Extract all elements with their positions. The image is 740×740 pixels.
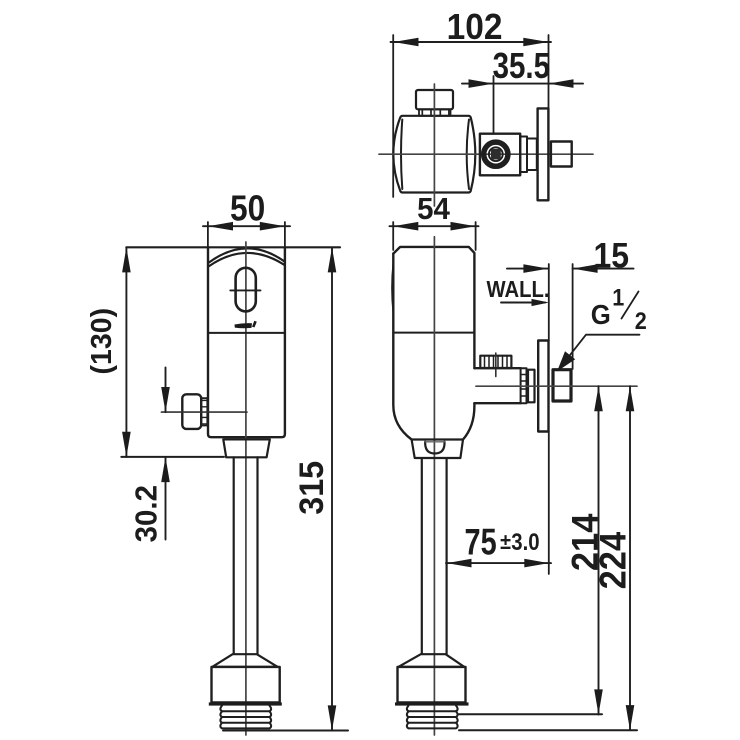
knob stem centerline	[495, 353, 497, 377]
WALL label	[487, 276, 550, 303]
dim line 315	[331, 247, 333, 730]
arrow 54 left	[393, 222, 418, 231]
arrow 214 top	[594, 386, 603, 411]
front body top arc 1	[209, 248, 284, 262]
arrow 15 pointing left	[573, 264, 598, 273]
side pipe left wall	[421, 459, 423, 654]
ribbed knob on arm	[480, 356, 511, 368]
svg-text:315: 315	[293, 461, 331, 515]
svg-text:(130): (130)	[86, 308, 118, 375]
side wall plate	[538, 341, 548, 432]
front pipe right wall	[256, 457, 258, 654]
dim 315 rotated text	[293, 461, 331, 515]
arrow 75 left	[447, 559, 472, 568]
arrow 15 pointing right	[523, 264, 548, 273]
svg-text:3.0: 3.0	[511, 528, 539, 555]
front body outline	[208, 247, 285, 437]
dim line 102	[391, 41, 552, 43]
top view vertical centerline	[433, 84, 435, 206]
arrow 315 top	[328, 247, 337, 272]
dim 214 rotated text	[563, 514, 606, 572]
bottom reference line front	[223, 730, 348, 732]
reference line at neck bottom	[121, 456, 224, 458]
top view barrel inner arc left	[401, 120, 402, 190]
svg-text:2: 2	[635, 307, 647, 334]
svg-text:75: 75	[465, 522, 497, 563]
dim text 54	[417, 193, 450, 227]
arrow 214 bottom	[594, 689, 603, 714]
arrow 224 top	[626, 386, 635, 411]
arrow 35.5 pointing left	[549, 79, 574, 88]
arrow 30.2 down	[161, 387, 170, 412]
arrow 75 right	[524, 559, 549, 568]
extension 75 right (wall face extended)	[548, 432, 550, 575]
extension 54 left	[392, 222, 394, 250]
svg-text:30.2: 30.2	[130, 485, 164, 542]
front threads	[220, 706, 271, 729]
svg-text:54: 54	[417, 193, 450, 227]
side vertical centerline	[433, 237, 435, 735]
top view step 1	[520, 137, 527, 173]
arrow 50 left	[208, 222, 233, 231]
top reference line through body	[126, 246, 340, 248]
side knob cap	[182, 394, 201, 429]
dim (130) rotated text	[86, 308, 118, 375]
arm bottom edge	[474, 402, 520, 404]
arrow (130) bottom	[122, 432, 131, 457]
extension line 35.5 center	[493, 76, 495, 134]
side neck notch	[425, 442, 444, 454]
dim line 224	[629, 386, 631, 730]
dim text 15	[594, 236, 630, 276]
arm top edge	[474, 367, 520, 369]
top view valve fitting block	[480, 134, 520, 176]
top view valve circle outer ring	[484, 142, 508, 166]
svg-text:15: 15	[594, 236, 630, 276]
body separator line	[209, 332, 284, 334]
side body left lens arc	[392, 264, 393, 312]
dim line (130)	[125, 247, 127, 457]
arm centerline	[476, 385, 637, 387]
front spreader shoulder	[212, 654, 278, 667]
front pipe left wall	[233, 457, 235, 654]
extension 15 left (wall face upper)	[548, 264, 550, 341]
svg-text:1: 1	[612, 284, 624, 311]
dim line 30.2 upper segment	[165, 368, 167, 413]
front lock nut	[212, 667, 280, 703]
arrow 102 left	[393, 38, 418, 47]
arrow 102 right	[523, 38, 548, 47]
dim text 50	[230, 189, 265, 229]
G 1/2 label	[591, 299, 611, 330]
arrow 224 bottom	[626, 705, 635, 730]
dim 30.2 rotated text	[130, 485, 164, 542]
side body outline	[393, 247, 474, 368]
neck trapezoid	[223, 439, 269, 457]
svg-text:224: 224	[591, 532, 634, 590]
top view valve center square	[491, 149, 501, 160]
dim 15 right tail	[573, 268, 634, 270]
top view horizontal centerline	[379, 153, 593, 155]
extension 15 right	[572, 264, 574, 369]
hex nut behind wall	[553, 370, 571, 401]
extension line left of 102	[392, 35, 394, 197]
side body left edge	[393, 254, 411, 440]
arrow (130) top	[122, 247, 131, 272]
front vertical centerline	[245, 242, 247, 735]
front nut flange band	[209, 702, 282, 705]
G 1/2 leader arrowhead	[557, 351, 575, 371]
front body top arc 2	[209, 253, 284, 266]
side pipe right wall	[446, 459, 448, 654]
top view cap nut	[416, 90, 453, 109]
svg-text:±: ±	[500, 530, 511, 554]
side neck	[412, 440, 463, 459]
knob centerline	[161, 411, 247, 413]
arrow 50 right	[260, 222, 285, 231]
arrow 315 bottom	[328, 705, 337, 730]
svg-text:WALL.: WALL.	[487, 276, 550, 303]
side lock nut	[398, 667, 466, 703]
arrow 30.2 up	[161, 457, 170, 482]
WALL arrowhead	[532, 299, 550, 306]
dim line 30.2 lower segment	[165, 457, 167, 540]
top view barrel body	[393, 116, 475, 193]
reference line 214	[459, 713, 602, 715]
arrow 35.5 pointing right	[469, 79, 494, 88]
G 1/2 leader line	[559, 335, 640, 369]
extension line right of 102 (wall face)	[548, 35, 550, 109]
extension 54 right	[475, 222, 477, 250]
top view valve circle inner	[489, 147, 503, 161]
side nut flange band	[395, 702, 469, 705]
extension 50 left	[207, 222, 209, 247]
dim line 54	[390, 225, 479, 227]
dim line 214	[598, 386, 600, 714]
top view wall plate	[538, 108, 549, 200]
dim 15 left tail	[507, 268, 549, 270]
side knob flange	[201, 398, 207, 425]
reference line 224	[459, 729, 637, 731]
top view cap flange	[419, 109, 451, 116]
side spreader shoulder	[398, 654, 464, 667]
dim line 50	[203, 225, 290, 227]
extension 50 right	[284, 222, 286, 247]
arm threaded ring	[521, 368, 527, 403]
side separator line	[393, 332, 474, 334]
svg-text:G: G	[591, 299, 611, 330]
dim text 102	[447, 8, 503, 47]
dim line 75	[446, 562, 551, 564]
oval center tick	[230, 289, 260, 291]
side threads	[407, 706, 458, 729]
G 1/2 slash	[622, 292, 639, 319]
sensor window oval	[236, 268, 256, 312]
svg-text:35.5: 35.5	[493, 45, 550, 85]
dim line 35.5	[462, 83, 583, 85]
dim text 75 +-3.0	[465, 522, 497, 563]
WALL arrow line	[501, 302, 545, 304]
side body right lower edge	[463, 403, 474, 439]
top view rear pipe	[551, 142, 572, 167]
dim text 35.5	[493, 45, 550, 85]
arrow 54 right	[451, 222, 476, 231]
top view barrel inner arc right	[467, 120, 469, 190]
arm flange	[528, 370, 535, 403]
top view step 2	[527, 139, 537, 171]
logo mark	[235, 321, 257, 328]
dim 224 rotated text	[591, 532, 634, 590]
